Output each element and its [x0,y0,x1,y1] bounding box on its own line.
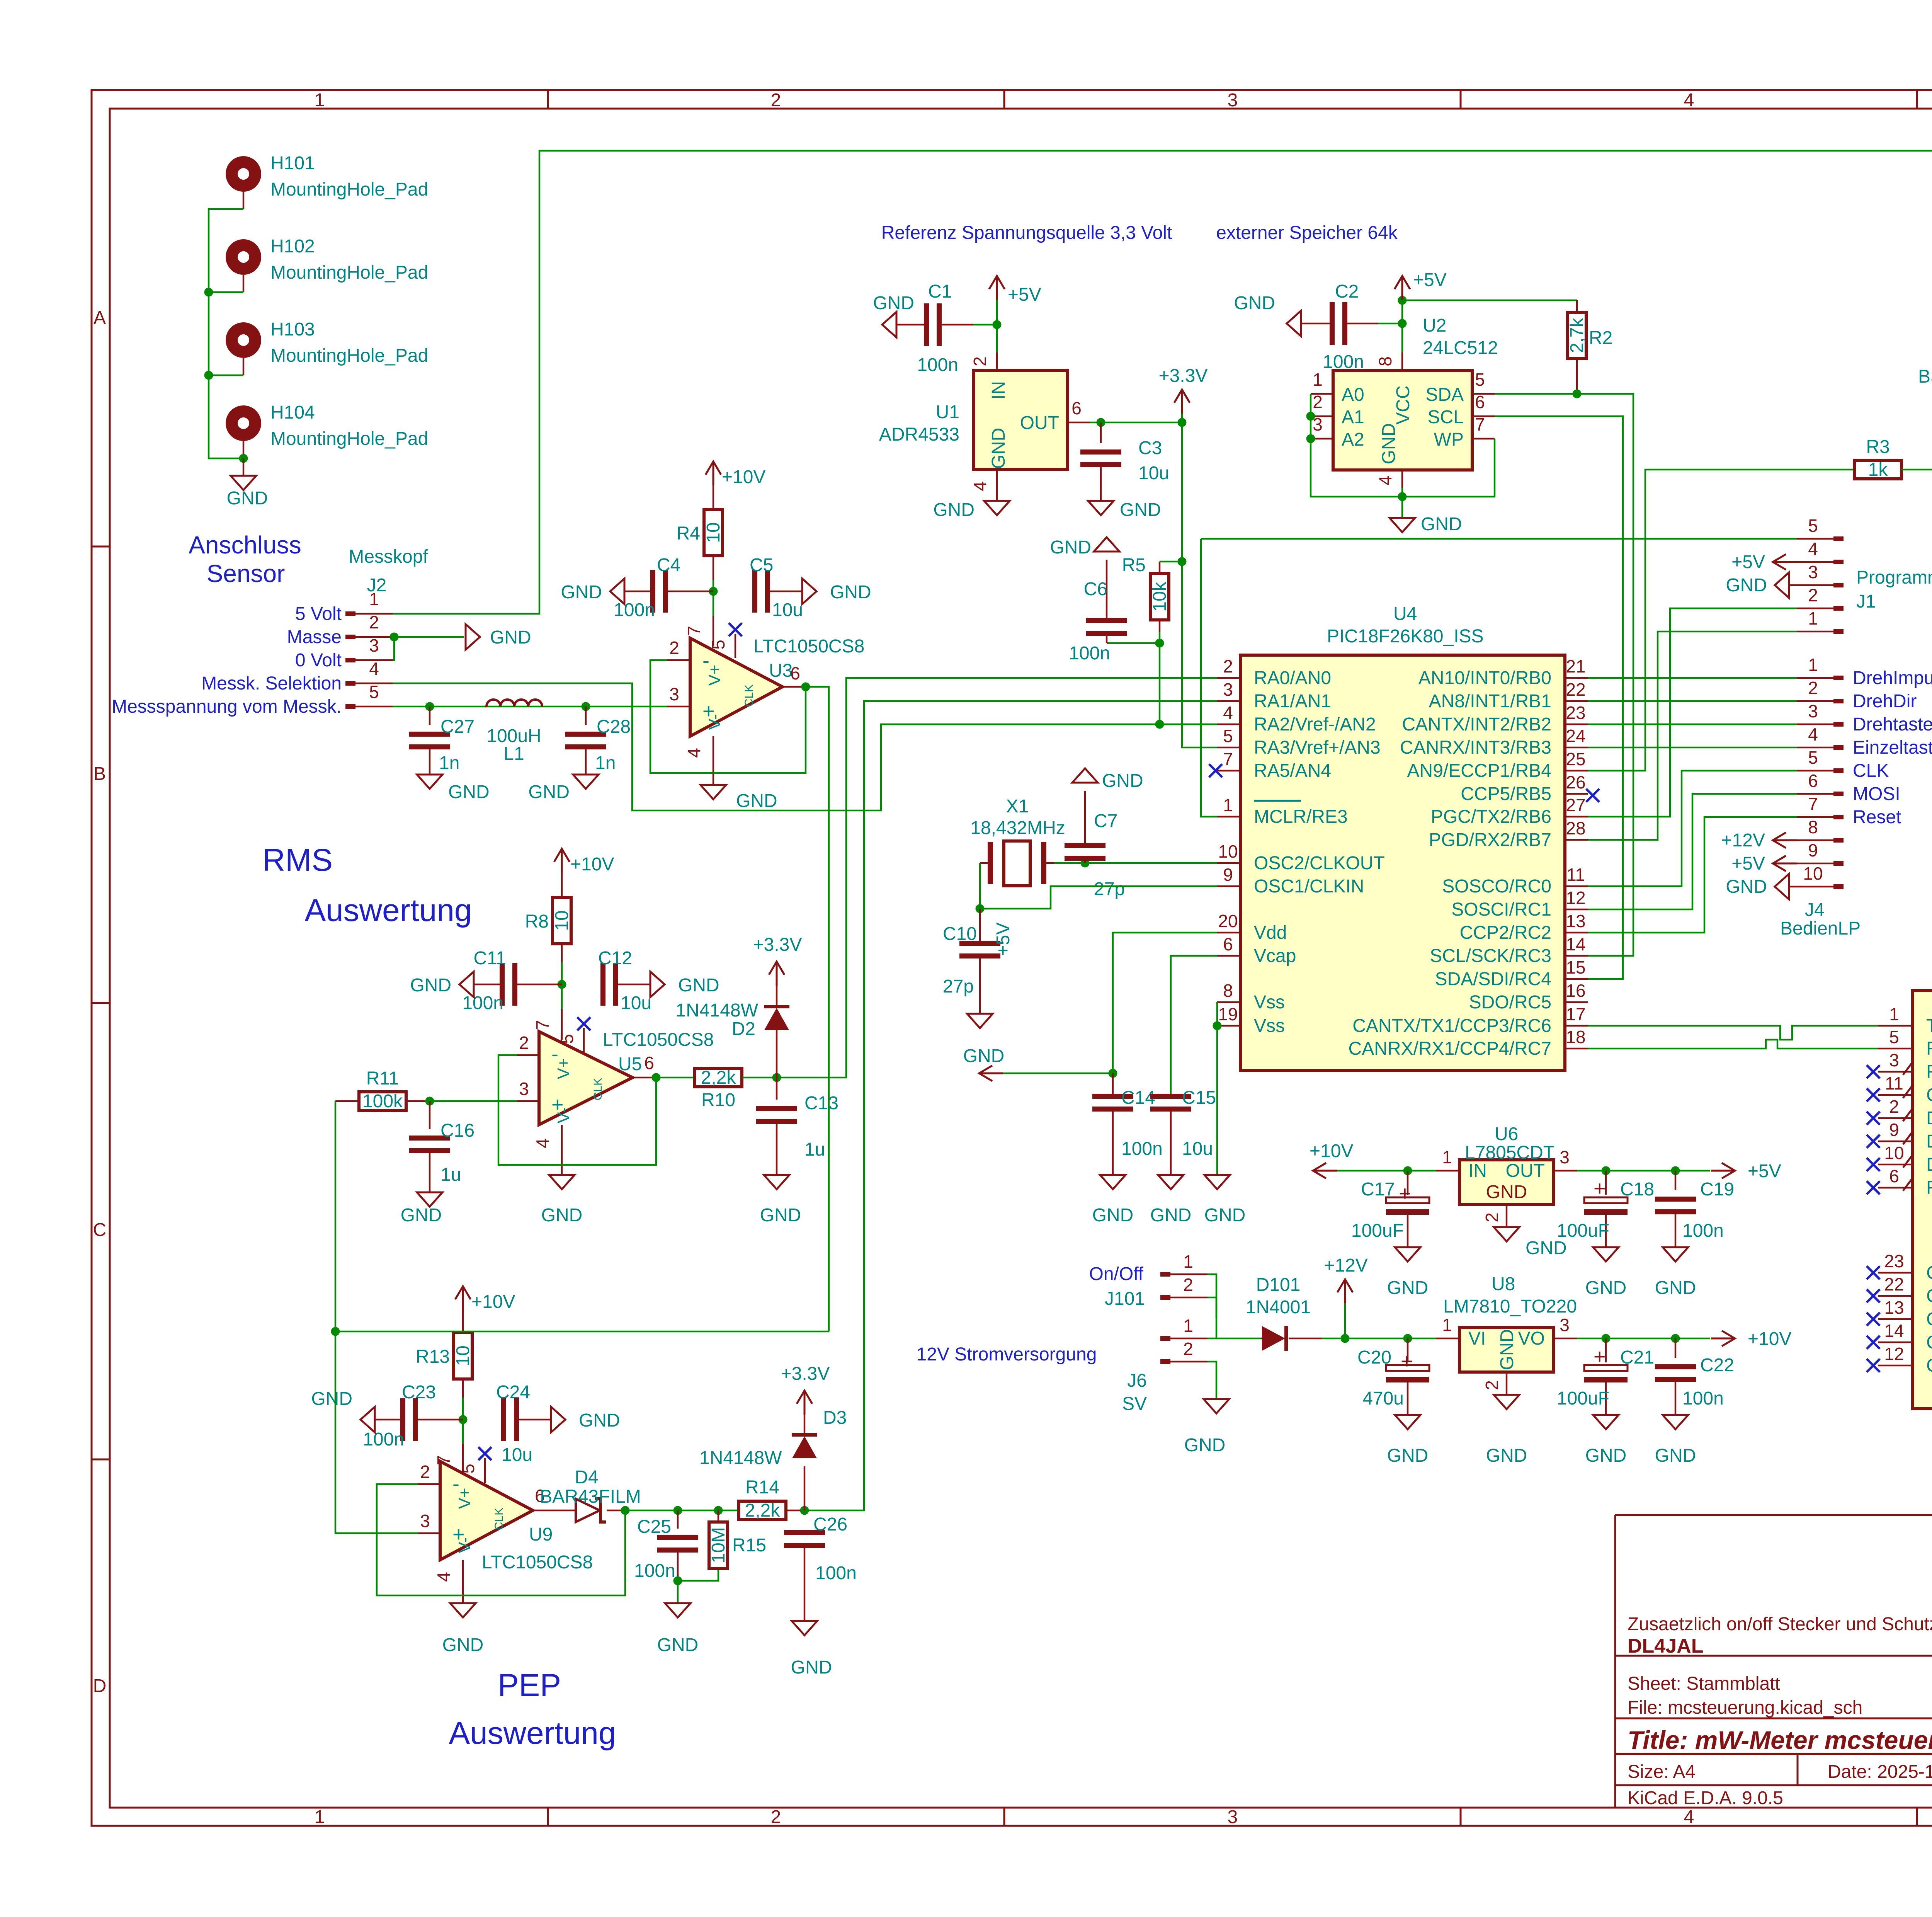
svg-text:10: 10 [1884,1143,1904,1163]
junction [204,371,213,380]
svg-text:5: 5 [708,640,728,650]
svg-text:C25: C25 [637,1517,671,1537]
pin U4.5 RA3/Vref+/AN3 [1217,726,1381,758]
svg-text:100n: 100n [462,993,503,1013]
pin U4.13 CCP2/RC2 [1460,911,1588,943]
svg-text:C15: C15 [1182,1088,1216,1108]
svg-text:CBUS4: CBUS4 [1926,1355,1932,1376]
svg-text:GND: GND [736,791,777,811]
pin U4.19 Vss [1217,1004,1285,1036]
svg-text:100k: 100k [362,1091,403,1112]
svg-text:5 Volt: 5 Volt [295,604,342,624]
ground C3 [1088,500,1161,520]
svg-text:GND: GND [1585,1445,1627,1466]
ground C17 [1387,1247,1429,1298]
svg-text:DrehImpulse: DrehImpulse [1853,668,1932,688]
svg-text:16: 16 [1566,981,1585,1001]
svg-text:10u: 10u [1138,463,1169,484]
svg-text:R10: R10 [701,1090,735,1110]
svg-text:Date: 2025-10-23: Date: 2025-10-23 [1828,1762,1932,1782]
transistor Q1 BSS138N [1918,342,1932,507]
junction [714,1506,723,1515]
svg-text:TXD: TXD [1926,1016,1932,1036]
svg-text:GND: GND [1486,1445,1527,1466]
ground U3.4 [701,785,777,811]
svg-text:3: 3 [1560,1147,1570,1167]
svg-text:MountingHole_Pad: MountingHole_Pad [270,179,428,200]
junction [1306,412,1315,421]
svg-text:C16: C16 [440,1120,474,1141]
pin U9.3 [418,1511,440,1533]
mounting hole H103 [226,319,428,375]
svg-text:SOSCI/RC1: SOSCI/RC1 [1451,899,1551,920]
capacitor C26 [784,1514,857,1621]
ground C16 [401,1192,442,1226]
mounting hole H102 [226,236,428,292]
svg-text:12V Stromversorgung: 12V Stromversorgung [917,1344,1097,1365]
ground at J2.2 [466,624,531,650]
svg-text:C6: C6 [1084,579,1107,599]
svg-text:1N4001: 1N4001 [1246,1297,1311,1318]
svg-text:Referenz Spannungsquelle 3,3 V: Referenz Spannungsquelle 3,3 Volt [881,223,1172,243]
svg-text:4: 4 [1223,703,1233,723]
pin U9.2 [418,1462,440,1484]
svg-text:9: 9 [1808,840,1818,860]
svg-text:+12V: +12V [1324,1255,1367,1276]
ground C5 [802,579,871,604]
capacitor C14 [1092,1073,1163,1175]
power +10V at R4 [706,461,765,487]
junction [1178,557,1187,566]
junction [1155,720,1164,729]
ground C22 [1655,1415,1696,1466]
wire R5 to RA2 row [1159,632,1161,724]
svg-text:SDA/SDI/RC4: SDA/SDI/RC4 [1435,969,1551,989]
wire U9 feedback [377,1484,625,1595]
svg-text:4: 4 [1375,475,1395,485]
svg-text:18: 18 [1566,1027,1585,1047]
resistor R13 [416,1310,473,1398]
wire MCLR net [1201,539,1217,817]
svg-text:11: 11 [1885,1073,1903,1093]
svg-text:GND: GND [1486,1182,1527,1202]
svg-text:File: mcsteuerung.kicad_sch: File: mcsteuerung.kicad_sch [1628,1697,1862,1718]
no-connect U4.26 [1586,789,1599,802]
pin U6.3 [1554,1147,1577,1171]
svg-text:22: 22 [1884,1274,1904,1294]
svg-text:10u: 10u [1182,1139,1213,1159]
svg-text:2: 2 [1482,1380,1502,1390]
wire U3 out to net [806,687,829,1331]
svg-text:2: 2 [420,1462,430,1482]
svg-text:3: 3 [1228,1807,1238,1827]
wire SCL net [1495,416,1623,979]
op-amp U5 [539,1030,714,1125]
wire TXD jog [1588,1026,1878,1040]
svg-text:D: D [93,1676,107,1696]
svg-text:100n: 100n [1121,1139,1163,1159]
junction [390,633,399,642]
pin U6.1 [1408,1147,1459,1171]
svg-text:+3.3V: +3.3V [1159,366,1208,386]
svg-text:GND: GND [528,782,570,802]
svg-text:10: 10 [552,910,572,931]
label Messk. Selektion [201,673,342,694]
power +10V feed U6 [1310,1141,1408,1178]
svg-text:GND: GND [442,1635,484,1655]
svg-text:GND: GND [1379,423,1399,465]
pin U4.26 CCP5/RB5 [1461,772,1588,804]
label Messspannung vom Messk. [112,696,342,717]
junction [1341,1334,1350,1343]
svg-text:+: + [1594,1345,1606,1368]
pin U4.8 Vss [1217,981,1285,1013]
svg-text:2: 2 [1808,678,1818,698]
svg-text:C3: C3 [1138,438,1162,458]
ground C27 [417,775,490,802]
svg-text:5: 5 [557,1034,577,1044]
svg-text:CCP5/RB5: CCP5/RB5 [1461,784,1551,804]
connector J4 BedienLP [1780,655,1861,939]
svg-text:GND: GND [401,1205,442,1226]
power +5V above U2 [1395,270,1447,323]
svg-text:V+: V+ [554,1058,573,1079]
svg-text:D2: D2 [732,1019,755,1039]
IC U6 L7805CDT body [1459,1124,1554,1204]
svg-text:externer Speicher 64k: externer Speicher 64k [1216,223,1398,243]
diode D4 BAR43FILM [540,1467,641,1522]
svg-text:C11: C11 [474,948,507,969]
IC U4 PIC18F26K80 body [1240,604,1565,1071]
svg-text:L7805CDT: L7805CDT [1465,1142,1554,1163]
wire A pins to gnd [1311,394,1402,497]
junction [582,702,590,711]
wire U3 feedback [650,660,806,773]
svg-text:C7: C7 [1094,811,1117,831]
svg-text:100n: 100n [1069,643,1110,664]
svg-text:RMS: RMS [262,843,333,878]
svg-text:GND: GND [1120,500,1161,520]
svg-text:1: 1 [1808,608,1818,628]
svg-text:10u: 10u [502,1445,532,1465]
svg-text:3: 3 [669,684,679,704]
svg-text:GND: GND [1184,1435,1226,1456]
pin U5.6 [633,1053,656,1078]
pin U4.15 SDA/SDI/RC4 [1435,957,1588,989]
wire U1 out to +3.3V [1090,422,1182,424]
svg-text:CLK: CLK [592,1078,604,1100]
svg-text:CLK: CLK [1853,761,1889,781]
no-connect U4.7 [1209,764,1222,777]
ground C10 [963,1014,1005,1066]
svg-text:11: 11 [1566,865,1585,885]
inductor L1 [485,700,542,764]
svg-text:MOSI: MOSI [1853,784,1900,804]
IC U7 FT232RL body [1913,952,1932,1409]
svg-text:3: 3 [1889,1050,1899,1070]
junction [673,1506,682,1515]
svg-text:5: 5 [458,1464,478,1474]
wire J2.3 to J2.2 [393,637,464,660]
capacitor C5 [750,555,803,620]
pin U8.3 [1554,1315,1577,1338]
wire CLK to RC0 [1588,771,1797,886]
svg-text:9: 9 [1223,865,1233,885]
svg-text:MountingHole_Pad: MountingHole_Pad [270,262,428,283]
capacitor C11 [462,948,562,1013]
junction [1671,1166,1680,1175]
svg-text:3: 3 [369,635,379,655]
svg-text:6: 6 [1889,1166,1899,1186]
svg-text:25: 25 [1566,749,1585,769]
svg-text:C19: C19 [1700,1179,1734,1200]
svg-text:D4: D4 [575,1467,598,1488]
power +3.3V at U1 out [1159,366,1208,422]
svg-text:4: 4 [1684,1807,1694,1827]
svg-text:On/Off: On/Off [1089,1264,1143,1284]
pin U7.6 RI [1867,1166,1932,1198]
svg-text:GND: GND [657,1635,699,1655]
svg-text:CTS: CTS [1926,1085,1932,1105]
svg-text:4: 4 [434,1572,454,1582]
svg-text:100n: 100n [1323,352,1364,372]
svg-text:RA5/AN4: RA5/AN4 [1254,761,1331,781]
svg-text:1: 1 [1223,795,1233,815]
svg-text:RTS: RTS [1926,1062,1932,1082]
wire D4 to R14 node [625,1510,739,1512]
wire RMS out to RA0 [777,678,1217,1078]
svg-text:U5: U5 [618,1054,642,1074]
ground C18 [1585,1247,1627,1298]
svg-text:RA1/AN1: RA1/AN1 [1254,691,1331,712]
svg-text:7: 7 [1475,414,1485,434]
svg-text:2: 2 [1808,585,1818,605]
svg-text:8: 8 [1223,981,1233,1001]
pin U7.1 TXD [1878,1004,1932,1036]
svg-text:+3.3V: +3.3V [753,935,802,955]
svg-text:Messkopf: Messkopf [349,546,428,567]
svg-text:24: 24 [1566,726,1585,746]
svg-text:7: 7 [532,1020,553,1030]
svg-text:SOSCO/RC0: SOSCO/RC0 [1442,876,1551,897]
svg-text:GND: GND [1726,877,1767,897]
capacitor C16 [409,1101,474,1192]
mounting hole H101 [226,153,428,209]
svg-text:X1: X1 [1006,796,1029,817]
resistor R8 [525,873,572,962]
svg-text:C: C [93,1220,107,1240]
svg-text:27p: 27p [1094,879,1125,899]
svg-text:+10V: +10V [471,1292,515,1312]
svg-text:V-: V- [705,714,724,730]
wire +3.3V to RA3 [1182,562,1217,747]
svg-text:MCLR/RE3: MCLR/RE3 [1254,807,1348,827]
junction [976,904,985,913]
svg-text:7: 7 [684,626,704,636]
pin U4.10 OSC2/CLKOUT [1217,841,1385,873]
svg-text:1: 1 [1183,1251,1193,1272]
svg-text:27: 27 [1566,795,1585,815]
svg-text:10u: 10u [621,993,651,1013]
svg-text:2: 2 [1183,1339,1193,1359]
ground C7 [1072,768,1143,791]
resistor R3 [1854,437,1932,480]
svg-text:RA3/Vref+/AN3: RA3/Vref+/AN3 [1254,737,1381,758]
junction [204,288,213,297]
pin U7.13 CBUS2 [1867,1297,1932,1330]
svg-text:SCL: SCL [1428,407,1464,427]
label CLK [1853,761,1889,781]
junction [1178,418,1187,427]
svg-text:+5V: +5V [1008,284,1041,305]
svg-text:H101: H101 [270,153,315,174]
svg-text:GND: GND [561,582,602,603]
pin U7.3 RTS [1867,1050,1932,1082]
svg-text:1: 1 [1313,369,1323,390]
svg-text:23: 23 [1884,1251,1904,1271]
svg-text:2: 2 [1313,392,1323,412]
svg-text:3: 3 [1808,701,1818,721]
wire J6.1 to D101 [1207,1338,1261,1340]
junction [1398,296,1407,305]
capacitor C6 [1069,560,1160,664]
capacitor C3 [1080,422,1169,501]
wire C25 R15 gnd [678,1568,718,1603]
svg-text:22: 22 [1566,679,1585,700]
ground at J4.10 [1726,874,1797,899]
wire node to U3 out [335,1331,829,1333]
ground C11 [410,972,474,997]
svg-text:BSS138N: BSS138N [1918,366,1932,387]
label DrehDir [1853,691,1917,712]
power +12V node [1324,1255,1367,1338]
svg-text:LTC1050CS8: LTC1050CS8 [482,1552,593,1573]
junction [1602,1334,1611,1343]
pin U5.7 [532,1009,562,1040]
wire X1 to OSC1 [980,863,1217,909]
capacitor C17 [1351,1171,1429,1247]
capacitor C23 [363,1382,463,1450]
svg-text:J101: J101 [1105,1289,1145,1309]
svg-text:10: 10 [453,1345,473,1366]
svg-text:19: 19 [1218,1004,1238,1024]
power +10V at R8 [554,849,614,875]
note Referenz Spannungsquelle [881,223,1172,243]
svg-text:A0: A0 [1342,385,1364,405]
svg-text:OUT: OUT [1020,413,1059,433]
svg-text:7: 7 [1223,749,1233,769]
svg-text:GND: GND [227,488,268,509]
label Drehtaste [1853,714,1932,735]
pin U4.11 SOSCO/RC0 [1442,865,1588,897]
pin U2.5 SDA [1472,369,1495,394]
svg-text:GND: GND [1585,1278,1627,1298]
wire U8 out rail [1577,1338,1710,1340]
svg-text:2: 2 [1183,1275,1193,1295]
junction [1403,1166,1412,1175]
svg-text:GND: GND [1726,575,1767,596]
svg-text:13: 13 [1566,911,1585,931]
svg-text:A2: A2 [1342,429,1364,450]
svg-text:5: 5 [369,682,379,702]
svg-text:17: 17 [1566,1004,1585,1024]
junction [1155,639,1164,648]
svg-text:GND: GND [1387,1445,1429,1466]
svg-text:10: 10 [1218,841,1238,861]
svg-text:GND: GND [1092,1205,1134,1226]
ground U1.4 [933,500,1010,520]
svg-text:OSC1/CLKIN: OSC1/CLKIN [1254,876,1364,897]
svg-text:Vss: Vss [1254,1016,1285,1036]
title block date [1828,1762,1932,1782]
pin U8.1 [1436,1315,1459,1338]
pin U8.2 gnd [1482,1372,1527,1466]
pin U9.6 [533,1486,555,1510]
svg-text:U6: U6 [1495,1124,1518,1144]
capacitor C1 [896,281,973,375]
ground C4 [561,579,624,604]
svg-text:Sheet: Stammblatt: Sheet: Stammblatt [1628,1674,1780,1694]
svg-text:100uF: 100uF [1557,1221,1609,1241]
pin U4.21 AN10/INT0/RB0 [1418,656,1588,688]
svg-text:AN10/INT0/RB0: AN10/INT0/RB0 [1418,668,1551,688]
svg-text:LTC1050CS8: LTC1050CS8 [753,636,864,657]
ground C15 [1150,1175,1192,1226]
ground below H104 [227,458,268,509]
svg-text:J2: J2 [367,575,387,596]
svg-text:100n: 100n [634,1561,675,1581]
pin U4.7 RA5/AN4 [1217,749,1331,781]
wire J1.1 PGD [1588,632,1797,840]
svg-text:D3: D3 [823,1408,847,1428]
pin U2.6 SCL [1472,392,1495,416]
pin U4.20 Vdd [1217,911,1287,943]
svg-text:6: 6 [1475,392,1485,412]
ground C21 [1585,1415,1627,1466]
svg-text:B: B [94,764,106,784]
svg-text:+10V: +10V [1310,1141,1353,1161]
svg-text:GND: GND [963,1046,1005,1066]
capacitor C21 [1557,1338,1654,1415]
svg-text:5: 5 [1808,516,1818,536]
svg-text:R5: R5 [1122,555,1146,575]
svg-text:1n: 1n [439,753,459,773]
junction [425,702,434,711]
pin U4.6 Vcap [1217,934,1296,966]
wire +5V to R2 [1402,300,1577,301]
svg-text:CBUS3: CBUS3 [1926,1332,1932,1353]
capacitor C19 [1655,1171,1734,1247]
svg-text:GND: GND [1204,1205,1246,1226]
svg-text:+: + [1401,1350,1413,1373]
pin U1.6 OUT [1068,398,1090,422]
svg-text:GND: GND [1421,514,1462,535]
pin U4.27 PGC/TX2/RB6 [1431,795,1588,827]
capacitor C18 [1557,1171,1654,1247]
svg-text:+10V: +10V [570,854,614,875]
svg-text:OUT: OUT [1506,1161,1545,1181]
svg-text:470u: 470u [1362,1388,1404,1409]
crystal X1 [970,796,1065,886]
svg-text:Messspannung vom Messk.: Messspannung vom Messk. [112,696,342,717]
resistor R11 [335,1068,430,1112]
svg-text:CANTX/TX1/CCP3/RC6: CANTX/TX1/CCP3/RC6 [1352,1016,1551,1036]
junction [1213,1021,1222,1030]
svg-text:GND: GND [1234,293,1275,313]
svg-text:C26: C26 [813,1514,847,1535]
pin U7.10 DCD [1867,1143,1932,1175]
resistor R4 [677,485,724,580]
